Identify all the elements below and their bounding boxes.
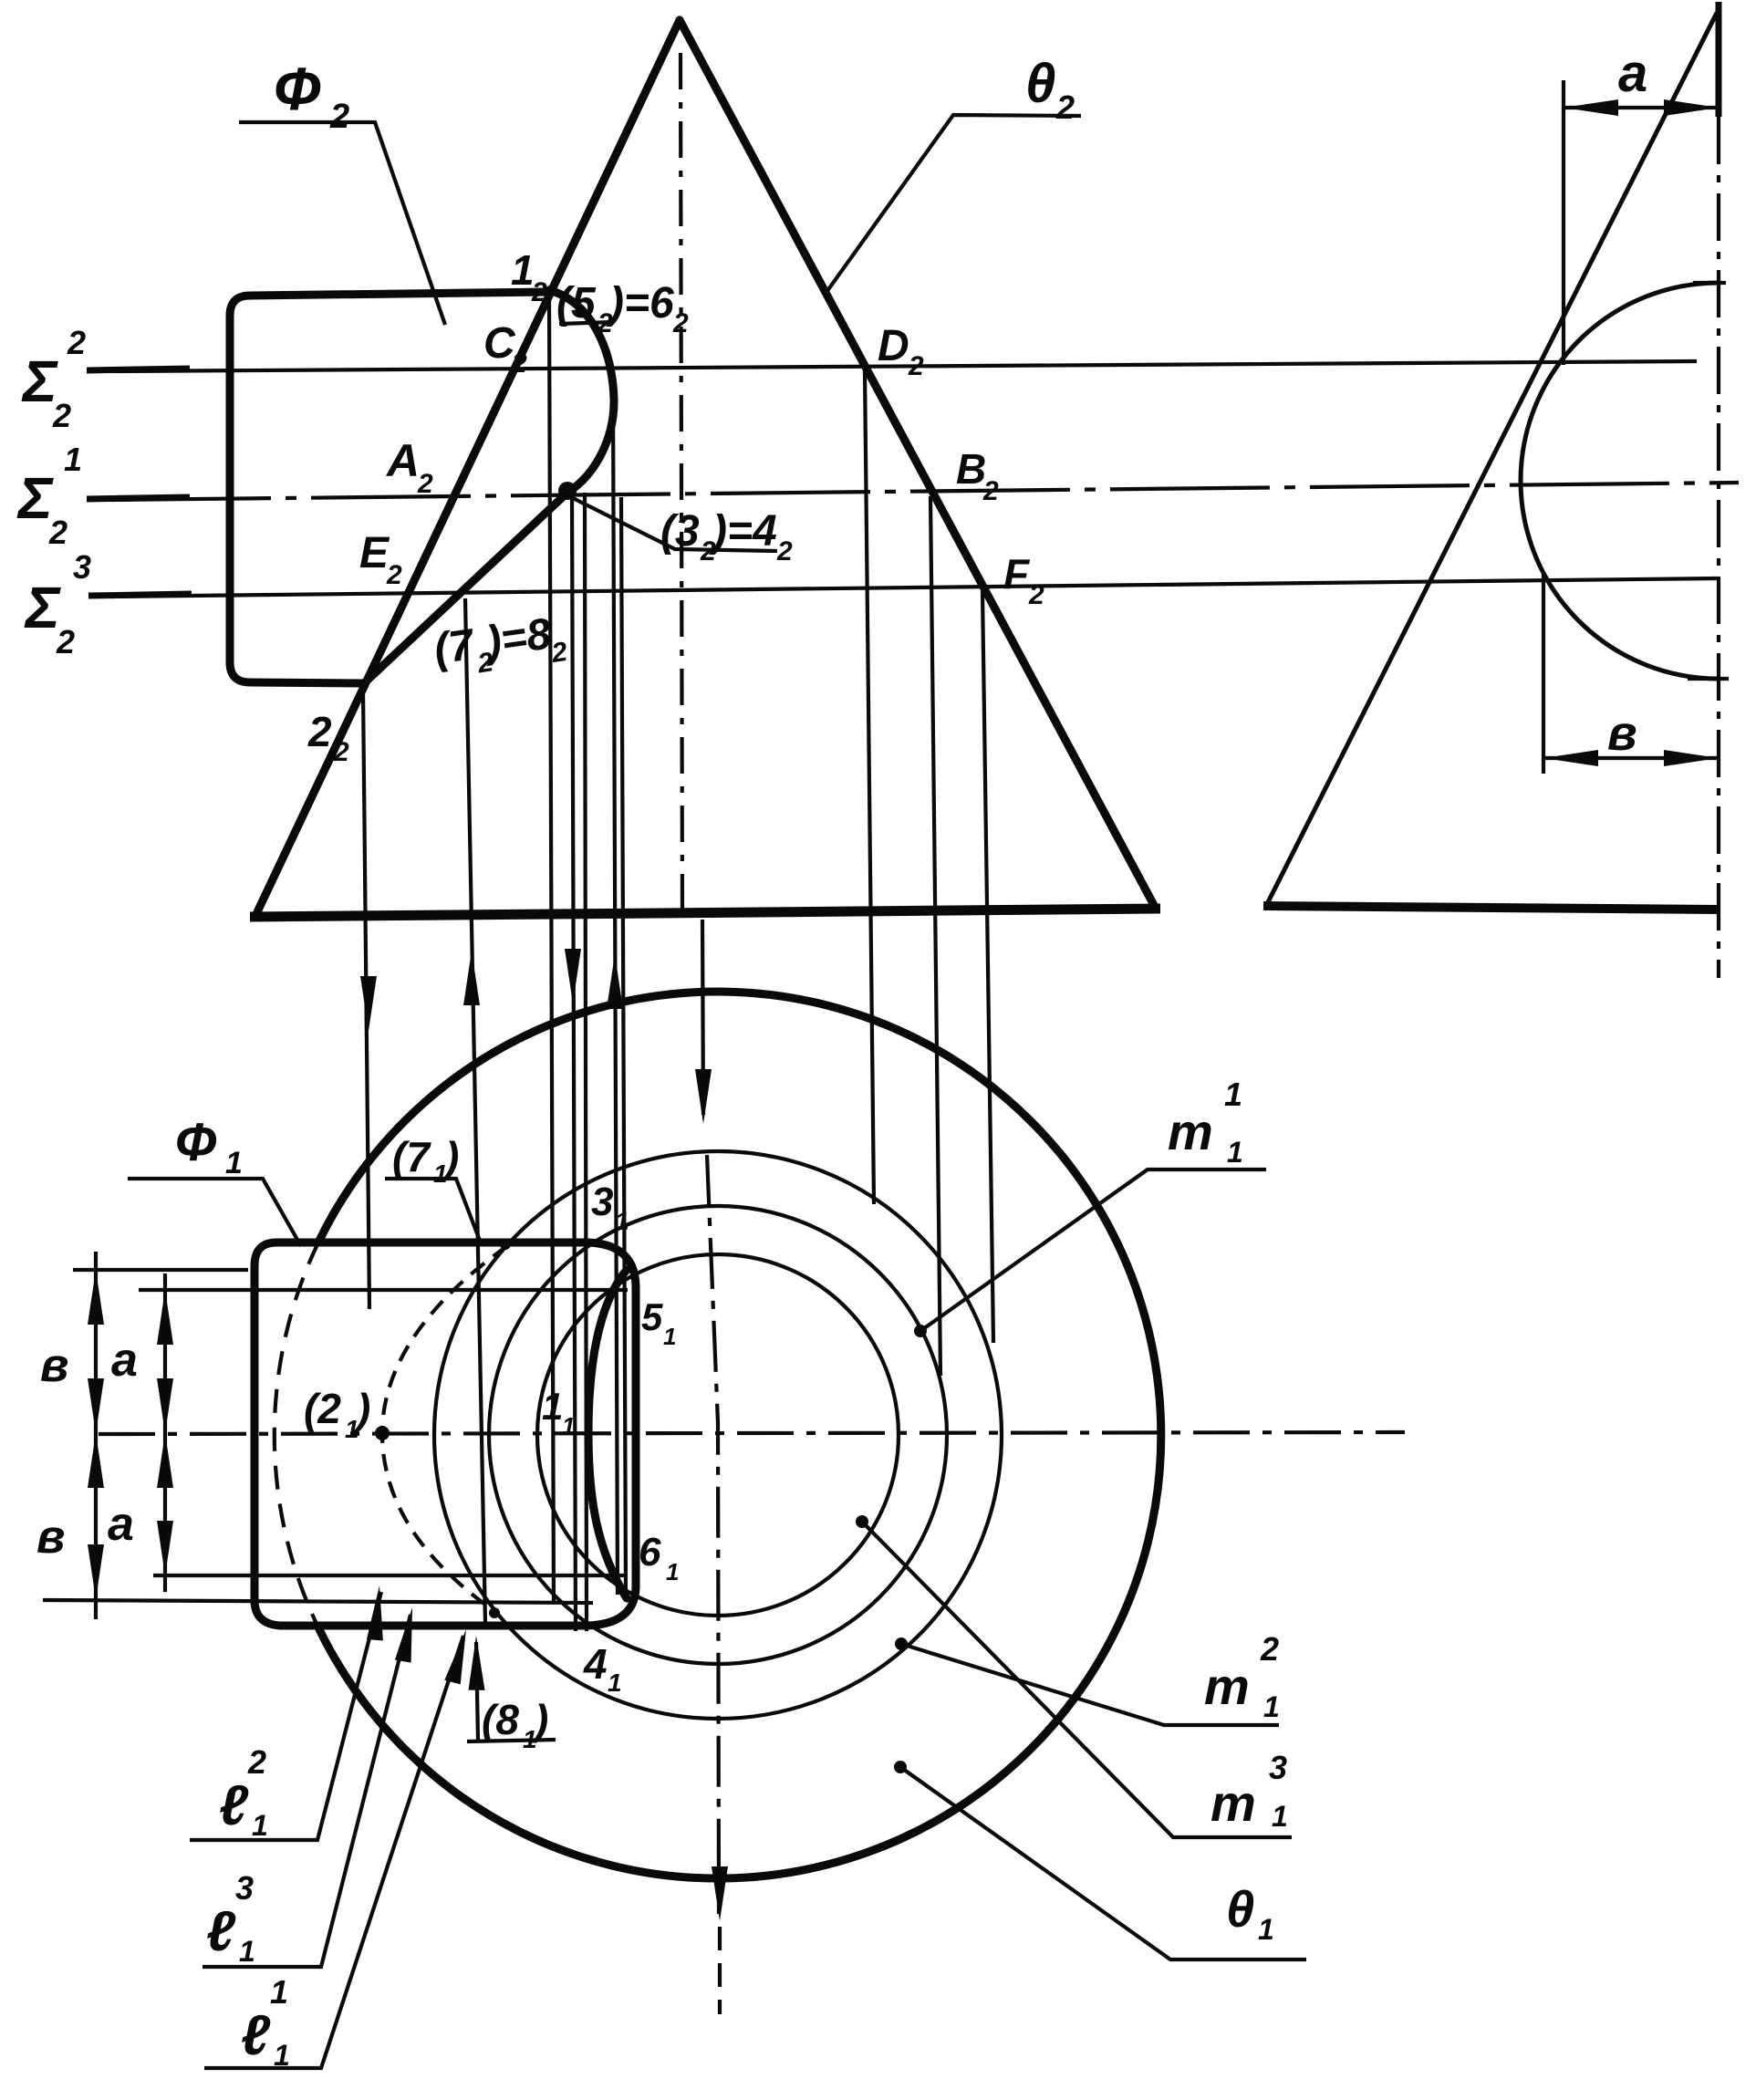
svg-text:2: 2 <box>672 308 689 338</box>
point 81 <box>489 1607 500 1618</box>
leader F2 label <box>239 122 445 325</box>
svg-text:1: 1 <box>225 1146 243 1180</box>
svg-text:1: 1 <box>1272 1800 1288 1833</box>
dim b arrow left <box>1543 750 1598 766</box>
section line S3 <box>111 578 1719 597</box>
centerline tail dashes <box>718 1927 722 2014</box>
leader F1 label <box>128 1179 301 1246</box>
svg-text:Σ: Σ <box>24 575 61 640</box>
svg-text:1: 1 <box>1224 1076 1242 1113</box>
svg-text:1: 1 <box>274 2039 290 2072</box>
leader 71 <box>385 1179 480 1241</box>
svg-text:2: 2 <box>908 351 924 381</box>
proj B <box>930 496 940 1376</box>
aux cone edge <box>1266 13 1717 906</box>
svg-text:6: 6 <box>639 1530 661 1575</box>
proj 56 a <box>613 396 618 1595</box>
aux circle bottom tick <box>1688 677 1729 681</box>
svg-text:2: 2 <box>333 737 349 767</box>
svg-text:1: 1 <box>666 1558 679 1585</box>
dim a arrows <box>157 1290 173 1345</box>
svg-text:E: E <box>359 529 390 577</box>
dim b line <box>1543 756 1719 760</box>
leader l11 <box>204 1636 463 2068</box>
section line S1 axis <box>111 483 1739 500</box>
leader m12 <box>901 1644 1279 1725</box>
svg-text:2: 2 <box>531 277 547 307</box>
proj 34 b <box>585 493 587 1631</box>
section line S2 left dash <box>87 369 190 370</box>
svg-text:1: 1 <box>608 1669 622 1697</box>
svg-text:в: в <box>1607 706 1637 761</box>
section line S3 left dash <box>88 594 192 596</box>
dim a line <box>1564 106 1719 109</box>
aux cylinder circle <box>1521 283 1719 679</box>
svg-text:3: 3 <box>73 548 91 586</box>
dim b extension <box>1542 573 1545 774</box>
svg-text:2: 2 <box>52 397 71 434</box>
cylinder front outline <box>230 292 549 683</box>
dim a inner line <box>163 1274 167 1592</box>
underline 5262 <box>559 322 613 324</box>
generator line l2 top <box>139 1288 628 1292</box>
leader Th2 label <box>825 115 1081 295</box>
svg-text:в: в <box>36 1511 65 1564</box>
svg-text:1: 1 <box>1263 1690 1280 1723</box>
centerline end arrow <box>712 1866 728 1921</box>
aux circle top tick <box>1693 281 1726 285</box>
svg-text:2: 2 <box>1260 1630 1279 1668</box>
label 7282 <box>431 608 570 684</box>
svg-text:3: 3 <box>235 1869 254 1907</box>
svg-text:Σ: Σ <box>16 465 54 531</box>
svg-text:1: 1 <box>1227 1136 1243 1169</box>
svg-text:2: 2 <box>1055 88 1075 126</box>
cone base circle hidden arc <box>275 1242 318 1626</box>
svg-text:2: 2 <box>386 560 402 590</box>
circle m2 r311 <box>434 1151 1002 1719</box>
section line S2 <box>111 361 1697 371</box>
cylinder top view square <box>255 1242 636 1626</box>
svg-text:Ф: Ф <box>274 55 321 122</box>
leader 3242 <box>573 498 777 551</box>
svg-text:2: 2 <box>417 469 433 499</box>
svg-text:2: 2 <box>56 623 75 660</box>
leader m11 <box>920 1170 1266 1331</box>
svg-text:1: 1 <box>239 1935 255 1968</box>
leader th1 <box>900 1767 1306 1960</box>
aux axis top solid <box>1716 2 1722 117</box>
leader 81 <box>467 1740 556 1741</box>
cone axis centerline <box>681 53 682 917</box>
svg-text:1: 1 <box>1258 1913 1274 1946</box>
svg-text:a: a <box>108 1498 134 1551</box>
dim a extension <box>1562 80 1565 365</box>
svg-text:5: 5 <box>641 1295 663 1338</box>
svg-text:1: 1 <box>270 1973 288 2011</box>
cylinder-cone intersection curve front <box>363 290 614 684</box>
svg-text:m: m <box>1168 1103 1213 1160</box>
circle m1 r251 <box>489 1206 947 1664</box>
svg-text:ℓ: ℓ <box>219 1774 249 1837</box>
hidden intersection curve top view <box>382 1246 507 1614</box>
proj 1 <box>549 294 554 1604</box>
svg-text:ℓ: ℓ <box>241 2004 271 2067</box>
svg-text:2: 2 <box>48 514 68 551</box>
dim v arrows <box>88 1270 104 1325</box>
svg-text:(5: (5 <box>556 279 597 327</box>
svg-text:(2: (2 <box>304 1385 341 1432</box>
svg-text:3: 3 <box>1269 1749 1287 1786</box>
cone base circle visible <box>317 992 1161 1878</box>
svg-text:2: 2 <box>307 708 332 755</box>
svg-text:θ: θ <box>1025 53 1055 114</box>
svg-text:1: 1 <box>64 441 82 478</box>
aux base <box>1263 906 1719 910</box>
svg-text:)=8: )=8 <box>479 609 555 667</box>
intersection crescent top view <box>588 1270 627 1598</box>
svg-text:2: 2 <box>511 348 527 379</box>
svg-text:4: 4 <box>583 1640 608 1688</box>
svg-text:(7: (7 <box>392 1133 431 1180</box>
svg-text:Ф: Ф <box>175 1113 217 1172</box>
dim a arrow left <box>1564 99 1618 116</box>
svg-text:в: в <box>40 1339 68 1392</box>
proj D <box>865 369 874 1204</box>
cone left edge <box>255 20 680 916</box>
dim v line <box>94 1252 98 1619</box>
svg-text:1: 1 <box>252 1809 268 1842</box>
circle m3 r198 <box>537 1254 899 1616</box>
svg-text:a: a <box>1618 44 1647 103</box>
svg-text:1: 1 <box>615 1207 629 1235</box>
leader l13 <box>203 1615 410 1967</box>
svg-text:(3: (3 <box>660 507 700 556</box>
dim b arrow right <box>1664 750 1719 766</box>
dim a arrow right <box>1664 99 1719 116</box>
proj 56 b <box>621 497 626 1592</box>
svg-text:)=4: )=4 <box>708 507 777 556</box>
dim v top extension <box>73 1268 248 1272</box>
point 21 <box>375 1426 390 1440</box>
svg-text:2: 2 <box>67 324 86 361</box>
proj 78 <box>465 598 485 1624</box>
svg-text:2: 2 <box>982 476 999 506</box>
svg-text:θ: θ <box>1226 1880 1254 1938</box>
svg-text:ℓ: ℓ <box>206 1900 236 1963</box>
point 71 <box>500 1239 511 1250</box>
section line S1 left dash <box>87 497 190 499</box>
svg-text:D: D <box>878 322 909 370</box>
svg-text:F: F <box>1003 550 1031 598</box>
svg-text:B: B <box>956 445 986 493</box>
proj axis arrow <box>702 920 703 1115</box>
svg-text:a: a <box>111 1334 138 1387</box>
leader l12 <box>190 1592 381 1840</box>
svg-text:m: m <box>1210 1774 1256 1832</box>
svg-text:)=6: )=6 <box>605 279 674 327</box>
proj 2 <box>363 691 369 1309</box>
svg-text:1: 1 <box>663 1323 676 1350</box>
generator line l3 bottom <box>43 1600 593 1603</box>
svg-text:2: 2 <box>247 1743 266 1781</box>
svg-text:1: 1 <box>542 1385 563 1428</box>
svg-text:A: A <box>385 435 420 486</box>
cone right edge <box>680 20 1156 909</box>
proj 34 a <box>572 493 576 1631</box>
aux axis centerline <box>1717 117 1720 978</box>
svg-text:m: m <box>1204 1658 1250 1715</box>
cone base <box>250 909 1160 917</box>
proj F <box>982 591 993 1343</box>
svg-text:2: 2 <box>329 98 349 136</box>
svg-text:(8: (8 <box>482 1696 519 1743</box>
svg-text:3: 3 <box>591 1180 613 1224</box>
svg-text:1: 1 <box>562 1412 575 1440</box>
junction point 3242 <box>558 482 577 500</box>
generator line l2 bottom <box>153 1574 628 1577</box>
leader m13 <box>862 1522 1292 1837</box>
svg-text:1: 1 <box>511 246 535 294</box>
top view vertical centerline <box>707 1155 719 1914</box>
svg-text:2: 2 <box>1028 580 1044 610</box>
top view horizontal centerline <box>99 1432 1405 1434</box>
svg-text:2: 2 <box>776 536 793 567</box>
